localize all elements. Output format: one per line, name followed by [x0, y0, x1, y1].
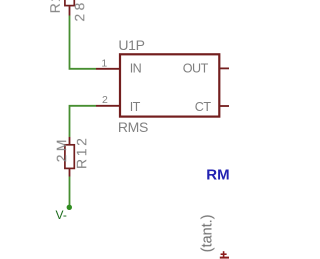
capacitor plate (cut off at bottom right): [220, 257, 229, 259]
U1P pin IN stub: [96, 68, 120, 70]
wire from U1P pin 2 left and down to R12: [70, 106, 97, 137]
U1P pin OUT stub: [220, 67, 229, 69]
U1P pin CT stub: [220, 105, 229, 107]
svg-text:RMS: RMS: [118, 119, 148, 135]
resistor R12: [65, 137, 74, 177]
svg-text:IT: IT: [130, 100, 141, 114]
svg-text:CT: CT: [195, 100, 212, 114]
wire from R12 down to V- node: [69, 177, 71, 208]
junction node dot at V-: [67, 205, 72, 210]
resistor R1 (cut off at top edge): [65, 0, 74, 16]
svg-text:R1: R1: [47, 0, 63, 13]
svg-text:V-: V-: [56, 208, 67, 222]
svg-text:U1P: U1P: [118, 37, 144, 53]
wire from R1 down and right to U1P pin 1: [70, 16, 97, 69]
svg-text:OUT: OUT: [183, 62, 209, 76]
svg-text:1: 1: [101, 58, 107, 70]
svg-text:2: 2: [102, 94, 108, 106]
svg-text:RMS: RMS: [206, 166, 229, 183]
U1P pin IT stub: [96, 105, 120, 107]
svg-text:IN: IN: [130, 61, 142, 75]
IC U1P box: [120, 54, 219, 116]
svg-text:2M: 2M: [53, 136, 69, 162]
svg-text:28K: 28K: [71, 0, 87, 22]
capacitor plus polarity mark (cut off at bottom right): [221, 251, 227, 257]
svg-text:R12: R12: [73, 136, 89, 169]
svg-text:(tant.): (tant.): [200, 214, 216, 252]
